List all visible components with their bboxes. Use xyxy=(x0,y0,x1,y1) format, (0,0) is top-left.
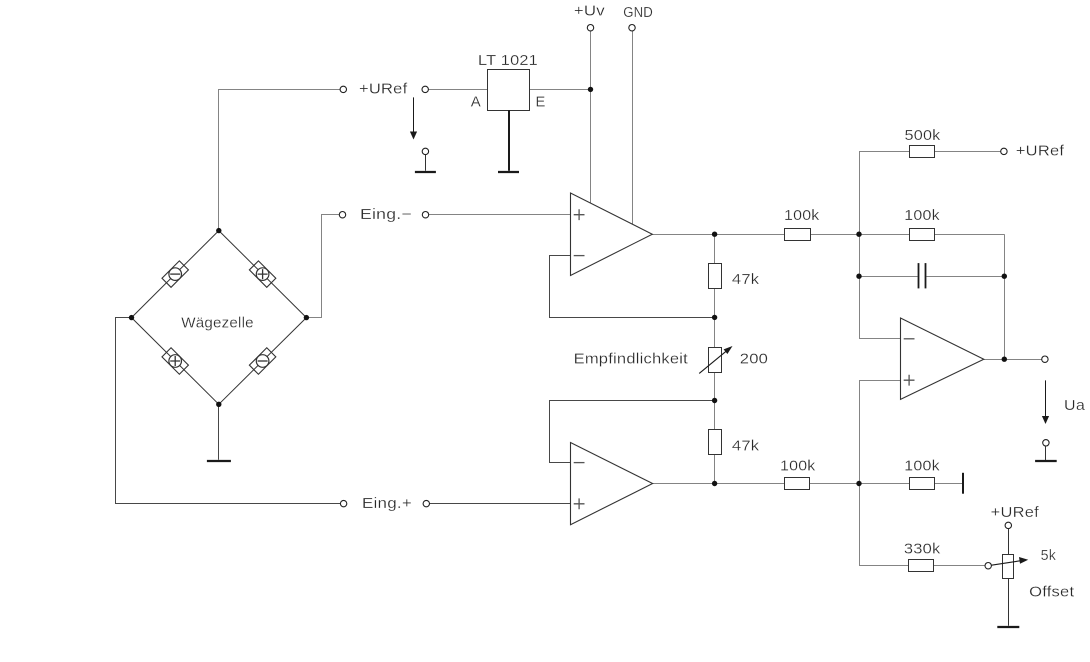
svg-text:LT 1021: LT 1021 xyxy=(478,52,538,69)
svg-text:47k: 47k xyxy=(732,438,760,455)
svg-text:100k: 100k xyxy=(904,457,940,474)
svg-text:Offset: Offset xyxy=(1029,584,1075,601)
svg-text:47k: 47k xyxy=(732,271,760,288)
svg-text:Eing.−: Eing.− xyxy=(360,206,412,223)
svg-text:100k: 100k xyxy=(904,207,940,224)
svg-text:100k: 100k xyxy=(784,207,820,224)
svg-text:+URef: +URef xyxy=(991,504,1040,521)
svg-text:200: 200 xyxy=(740,351,768,368)
svg-text:500k: 500k xyxy=(905,127,941,144)
svg-text:GND: GND xyxy=(623,4,653,21)
svg-text:Eing.+: Eing.+ xyxy=(362,495,412,512)
svg-text:+URef: +URef xyxy=(1016,142,1065,159)
svg-text:330k: 330k xyxy=(904,540,941,557)
svg-text:100k: 100k xyxy=(780,457,816,474)
svg-text:E: E xyxy=(535,94,545,111)
svg-text:Ua: Ua xyxy=(1064,397,1085,414)
svg-text:Empfindlichkeit: Empfindlichkeit xyxy=(574,351,689,368)
svg-text:+Uv: +Uv xyxy=(574,3,605,20)
svg-text:Wägezelle: Wägezelle xyxy=(181,314,254,331)
svg-text:+URef: +URef xyxy=(359,80,408,97)
svg-text:A: A xyxy=(471,94,481,111)
svg-text:5k: 5k xyxy=(1041,547,1057,564)
